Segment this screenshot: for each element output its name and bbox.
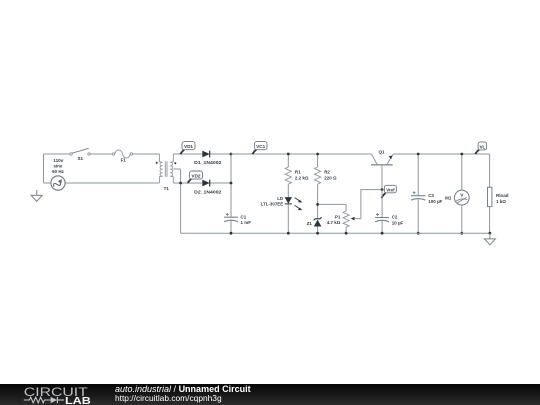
- svg-text:60 Hz: 60 Hz: [52, 169, 64, 174]
- svg-text:VD1: VD1: [184, 144, 193, 149]
- logo CIRCUIT text: [24, 385, 89, 399]
- wire: [489, 154, 491, 187]
- probe label VD2: [188, 171, 203, 183]
- svg-text:C1: C1: [241, 214, 247, 219]
- diode D1: [194, 151, 222, 166]
- switch S1: [70, 148, 90, 161]
- svg-text:S1: S1: [78, 156, 84, 161]
- svg-text:110v: 110v: [53, 158, 64, 163]
- svg-text:4.7 kΩ: 4.7 kΩ: [327, 220, 341, 225]
- svg-text:D2_1N4002: D2_1N4002: [194, 190, 222, 195]
- svg-text:Rload: Rload: [496, 193, 509, 198]
- svg-text:http://circuitlab.com/cqpnh3g: http://circuitlab.com/cqpnh3g: [115, 393, 222, 403]
- wire (emitter out): [393, 153, 489, 155]
- wire (main top rail): [231, 153, 372, 155]
- junction: [460, 232, 463, 235]
- svg-text:T1: T1: [164, 186, 170, 191]
- logo LAB text: [65, 396, 91, 405]
- LED LD: [261, 196, 303, 233]
- junction: [381, 232, 384, 235]
- junction: [345, 232, 348, 235]
- wire: [230, 154, 232, 217]
- wire: [230, 220, 232, 233]
- svg-text:R1: R1: [295, 170, 301, 175]
- wire: [417, 154, 419, 196]
- probe label VD1: [180, 142, 195, 155]
- junction: [381, 188, 384, 191]
- svg-text:C3: C3: [428, 193, 434, 198]
- voltage source V1: [51, 158, 65, 190]
- logo diode symbol: [51, 397, 64, 403]
- wire: [210, 182, 231, 184]
- wire: [180, 169, 182, 233]
- junction: [179, 182, 182, 185]
- junction: [316, 232, 319, 235]
- svg-text:LAB: LAB: [65, 396, 91, 405]
- svg-text:D1_1N4002: D1_1N4002: [194, 160, 222, 165]
- SCHEMATIC: [31, 142, 509, 245]
- wire: [461, 205, 463, 233]
- svg-text:VC1: VC1: [256, 144, 265, 149]
- svg-text:1 kΩ: 1 kΩ: [496, 199, 506, 204]
- wire: [44, 182, 51, 184]
- wire: [90, 153, 112, 155]
- resistor R2: [315, 154, 337, 219]
- wire: [210, 153, 231, 155]
- probe label VC1: [252, 142, 267, 155]
- junction: [417, 232, 420, 235]
- svg-text:100 µF: 100 µF: [428, 199, 442, 204]
- svg-text:1 mF: 1 mF: [241, 220, 252, 225]
- wire (wiper to base): [361, 190, 382, 219]
- capacitor C2: [375, 213, 403, 225]
- svg-text:P1: P1: [335, 214, 341, 219]
- svg-text:2.2 kΩ: 2.2 kΩ: [295, 176, 309, 181]
- wire: [173, 168, 180, 170]
- wire: [44, 153, 70, 155]
- junction: [230, 182, 233, 185]
- svg-text:220 Ω: 220 Ω: [324, 176, 337, 181]
- svg-text:C2: C2: [392, 215, 398, 220]
- svg-text:VD2: VD2: [192, 174, 201, 179]
- svg-text:M1: M1: [445, 196, 452, 201]
- logo resistor zigzag: [24, 397, 51, 403]
- wire: [461, 154, 463, 190]
- junction: [287, 232, 290, 235]
- wire: [65, 182, 159, 184]
- wire (bottom rail): [181, 232, 490, 234]
- svg-text:LD: LD: [277, 196, 284, 201]
- junction: [417, 153, 420, 156]
- wire: [318, 203, 347, 205]
- junction: [230, 153, 233, 156]
- wire: [417, 199, 419, 233]
- footer title line: [115, 384, 251, 394]
- svg-text:LTL-307EE: LTL-307EE: [261, 201, 284, 206]
- junction: [316, 203, 319, 206]
- resistor Rload: [488, 187, 509, 233]
- diode D2: [194, 180, 222, 195]
- wire: [173, 182, 202, 184]
- resistor R1: [285, 154, 309, 197]
- ground: [31, 190, 42, 201]
- probe label Vref: [381, 185, 396, 198]
- potentiometer P1: [327, 204, 361, 233]
- ground: [484, 233, 495, 245]
- svg-text:F1: F1: [121, 158, 127, 163]
- fuse F1: [112, 150, 132, 163]
- svg-text:sine: sine: [54, 164, 63, 169]
- svg-text:Z1: Z1: [307, 221, 313, 226]
- FOOTER BAR: [0, 384, 540, 405]
- junction: [230, 232, 233, 235]
- capacitor C3: [411, 191, 443, 204]
- svg-text:10 µF: 10 µF: [392, 220, 404, 225]
- wire: [381, 190, 383, 218]
- svg-text:VL: VL: [479, 144, 485, 149]
- junction: [489, 232, 492, 235]
- svg-text:Q1: Q1: [379, 149, 386, 154]
- transformer T1: [156, 154, 177, 191]
- capacitor C1: [224, 213, 251, 225]
- wire: [133, 153, 160, 155]
- wire: [43, 154, 45, 183]
- junction: [460, 153, 463, 156]
- wire: [173, 153, 202, 155]
- footer url line: [115, 393, 222, 403]
- svg-text:Vref: Vref: [386, 187, 395, 192]
- junction: [287, 153, 290, 156]
- wire: [381, 221, 383, 234]
- probe label VL: [475, 142, 486, 154]
- svg-text:R2: R2: [324, 170, 330, 175]
- transistor Q1: [371, 149, 393, 189]
- voltmeter M1: [445, 190, 469, 205]
- zener Z1: [307, 217, 322, 233]
- junction: [316, 153, 319, 156]
